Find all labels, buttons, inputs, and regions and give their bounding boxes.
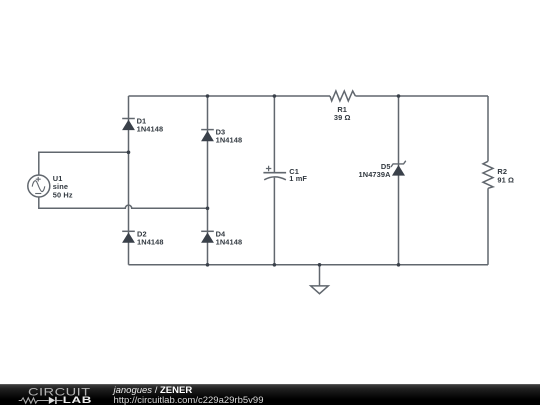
resistor R1 [330, 91, 355, 101]
node: ground stub on bottom rail [318, 263, 322, 267]
label C1 1 mF [289, 167, 307, 183]
node: D5 branch on bottom rail [397, 263, 401, 267]
wire: C1 vertical branch top [273, 96, 275, 172]
node: D3 branch on top rail [206, 94, 210, 98]
node: C1 branch on top rail [273, 94, 277, 98]
wire: top rail right segment (R1 right lead to R2 branch) [355, 95, 488, 97]
label D1 1N4148 [137, 116, 164, 133]
footer bar [0, 384, 540, 405]
label R1 39 Ω [334, 105, 351, 122]
wire: C1 vertical branch bottom [273, 178, 275, 265]
svg-text:1 mF: 1 mF [289, 174, 307, 183]
label D2 1N4148 [137, 230, 164, 247]
svg-text:1N4148: 1N4148 [216, 238, 243, 247]
svg-text:1N4148: 1N4148 [137, 124, 164, 133]
diode D3 [201, 130, 214, 141]
label D5 1N4739A [359, 162, 392, 179]
diode D1 [122, 119, 135, 130]
label D3 1N4148 [216, 127, 243, 144]
wire: R2 vertical branch bottom lead [487, 188, 489, 264]
wire: bottom rail [129, 264, 489, 266]
node: D4 branch on bottom rail [206, 263, 210, 267]
node A: junction of U1 top lead and D1/D2 branch [127, 151, 131, 155]
label U1 sine 50 Hz [53, 174, 73, 199]
svg-text:50 Hz: 50 Hz [53, 190, 73, 199]
label R2 91 Ω [497, 167, 514, 184]
diode D2 [122, 231, 135, 242]
diode D4 [201, 231, 214, 242]
resistor R2 [483, 161, 493, 188]
ground [311, 265, 329, 294]
svg-text:39 Ω: 39 Ω [334, 113, 351, 122]
wire: R2 vertical branch top lead [487, 96, 489, 161]
svg-text:1N4739A: 1N4739A [359, 170, 392, 179]
svg-text:1N4148: 1N4148 [216, 135, 243, 144]
node B: junction of U1 bottom lead and D3/D4 branch [206, 207, 210, 211]
label D4 1N4148 [216, 230, 243, 247]
wire: D5 zener vertical branch [398, 96, 400, 265]
zener diode D5 [391, 161, 405, 175]
svg-text:1N4148: 1N4148 [137, 238, 164, 247]
node: C1 branch on bottom rail [273, 263, 277, 267]
node: D5/R1 junction on top rail [397, 94, 401, 98]
wire: U1 bottom lead with hop over D1/D2 branch to node B [39, 197, 208, 208]
wire: U1 top lead to node A [39, 152, 128, 175]
voltage source U1 [28, 175, 50, 197]
svg-text:LAB: LAB [63, 396, 92, 405]
svg-text:91 Ω: 91 Ω [497, 175, 514, 184]
wire: D3/D4 vertical branch [207, 96, 209, 265]
CircuitLab logo [0, 384, 110, 405]
capacitor C1 [263, 166, 286, 180]
footer credit text [114, 386, 264, 405]
wire: top rail left segment (D1 branch top to R1 left lead) [129, 95, 331, 97]
wire: D1/D2 vertical branch [128, 96, 130, 265]
